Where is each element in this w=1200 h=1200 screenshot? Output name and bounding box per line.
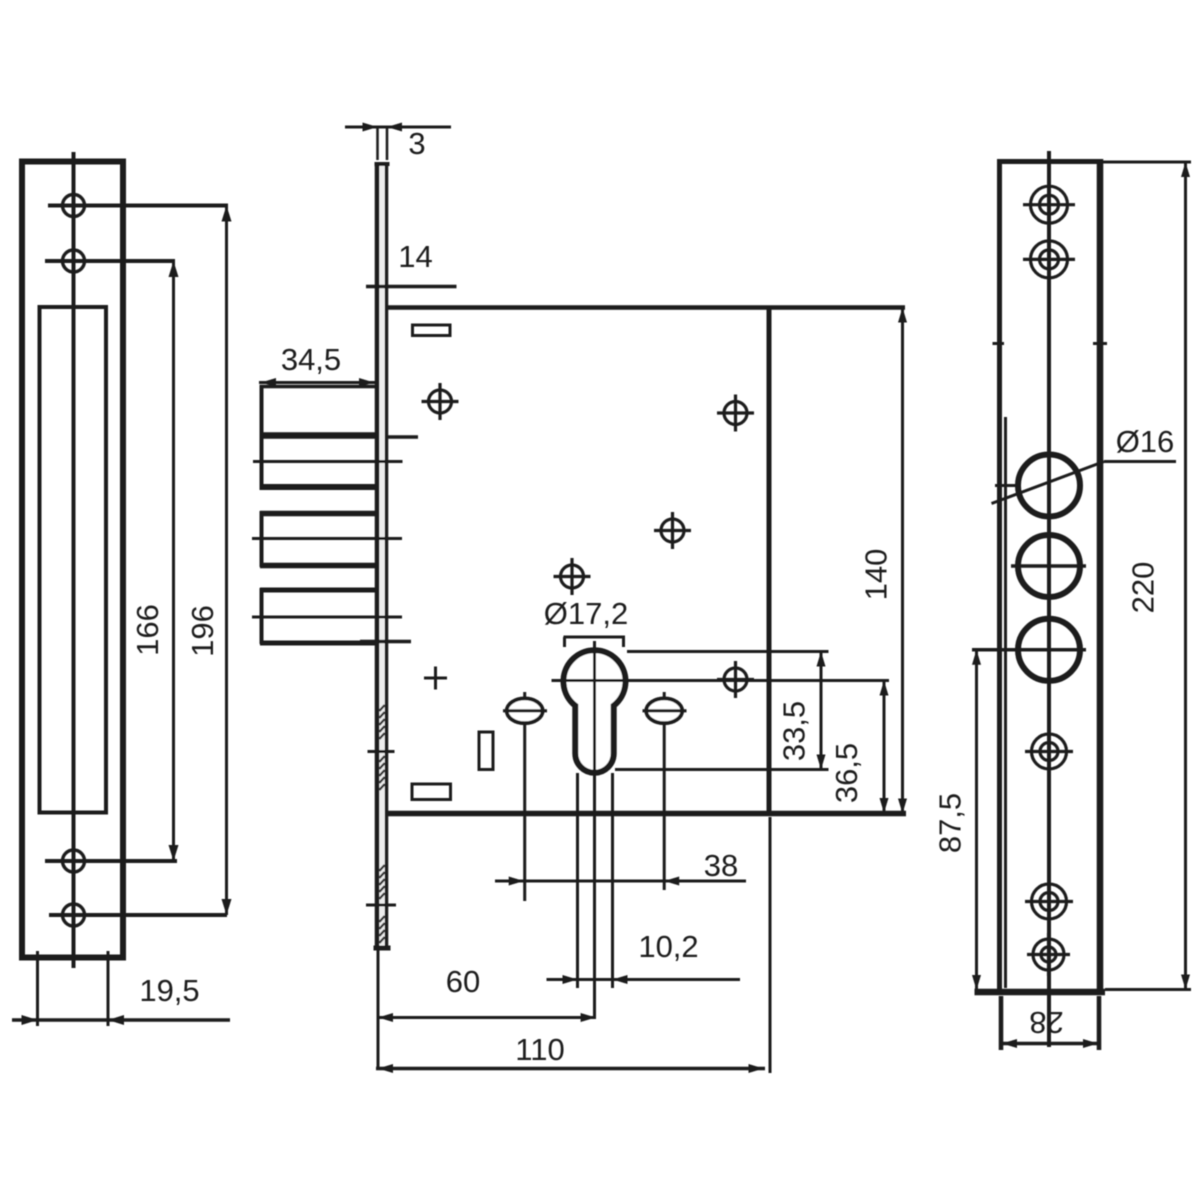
screw S1 head xyxy=(507,698,543,723)
svg-text:34,5: 34,5 xyxy=(281,342,341,377)
screw hole R1 xyxy=(1023,179,1075,231)
bolt stack 2 top xyxy=(260,511,375,517)
dimension 140 line xyxy=(901,308,904,814)
arrows 28 (inside) xyxy=(1002,1039,1017,1048)
svg-text:166: 166 xyxy=(130,604,165,656)
hole H2 xyxy=(63,250,85,272)
hole H3 xyxy=(63,850,85,872)
arrows 196 xyxy=(222,206,232,222)
33,5 top extension xyxy=(627,650,829,653)
case top edge + 140 extension xyxy=(387,305,906,310)
bolt stack 3 top xyxy=(260,588,375,593)
dimension 220 bottom extension xyxy=(1105,988,1191,991)
B1 leader horizontal xyxy=(1104,460,1176,463)
dimension 10,2 line xyxy=(547,978,741,981)
case right edge xyxy=(767,306,772,814)
top slot xyxy=(413,325,451,336)
dim 10,2 extensions xyxy=(576,773,579,988)
arrows 166 xyxy=(169,261,179,277)
bolt stack 3 left edge xyxy=(260,588,264,644)
svg-text:196: 196 xyxy=(185,605,220,657)
svg-text:60: 60 xyxy=(446,964,480,999)
plate right edge xyxy=(1097,159,1104,992)
bolt stack 1 left edge xyxy=(260,385,264,489)
arrows 87,5 xyxy=(972,650,981,665)
dimension 19,5 line xyxy=(12,1018,230,1022)
plate bottom edge xyxy=(975,989,1106,996)
arrows 220 xyxy=(1181,162,1190,177)
hole H4 xyxy=(63,904,85,926)
bolt stack 3 centerline xyxy=(252,616,402,619)
cylinder horizontal centerline visible in circle xyxy=(552,679,890,682)
cylinder centerline over keyhole xyxy=(593,644,596,772)
arrows 19,5 xyxy=(22,1015,38,1025)
plain cross xyxy=(424,677,447,680)
svg-text:19,5: 19,5 xyxy=(139,973,199,1008)
hole H2 extension line xyxy=(45,259,175,263)
strip bottom cap xyxy=(374,946,391,951)
plate top edge xyxy=(997,159,1100,164)
case bottom edge + extension xyxy=(387,811,907,817)
bolt stack 1 mid thick band xyxy=(260,432,376,439)
arrows 10,2 (outside) xyxy=(563,975,578,984)
dimension 33,5 line xyxy=(820,652,823,770)
bolt stack 2 left edge xyxy=(260,511,264,567)
arrows 140 xyxy=(898,308,907,323)
crosshair hole B xyxy=(724,402,747,425)
bolt stack 2 bottom xyxy=(260,563,375,569)
dimension 28 extensions xyxy=(999,996,1004,1050)
screw hole R3 xyxy=(1025,728,1073,776)
strip lower extension to 110 dim xyxy=(377,950,380,1070)
plate left edge xyxy=(997,159,1002,992)
edge tick left xyxy=(993,342,1005,345)
dia 17,2 bracket xyxy=(564,637,626,647)
dimension 60 line xyxy=(377,1016,596,1019)
faceplate inner cutout xyxy=(40,307,107,813)
crosshair hole E xyxy=(724,668,747,691)
svg-text:3: 3 xyxy=(408,126,425,161)
dimension 87,5 line xyxy=(975,650,978,990)
B1 leader diagonal xyxy=(992,462,1105,504)
euro profile cylinder hole xyxy=(563,650,625,772)
plate centerline xyxy=(1047,151,1051,1047)
big circle B1 xyxy=(1018,455,1080,517)
dimension 19,5 extension lines xyxy=(36,951,39,1026)
svg-text:28: 28 xyxy=(1029,1005,1063,1040)
arrows 33,5 xyxy=(817,652,826,667)
arrows 60 (inside) xyxy=(378,1013,393,1022)
svg-text:110: 110 xyxy=(515,1032,564,1067)
big circle B3 xyxy=(1018,619,1080,681)
dimension 220 line xyxy=(1184,162,1187,990)
33,5 bottom extension xyxy=(615,768,829,771)
bolt stack 2 centerline xyxy=(252,537,402,540)
110 right extension xyxy=(769,817,772,1073)
hole H3 extension line xyxy=(45,859,177,863)
screw hole R5 xyxy=(1027,933,1070,976)
hole H1 xyxy=(63,195,85,217)
bottom slot xyxy=(412,784,451,800)
crosshair hole A xyxy=(429,390,452,413)
svg-text:14: 14 xyxy=(398,239,432,274)
vertical slot xyxy=(479,732,493,770)
dimension 166 line xyxy=(172,261,175,861)
dimension 36,5 line xyxy=(883,681,886,814)
arrows 110 (inside) xyxy=(378,1064,393,1073)
strip hatching xyxy=(379,705,384,943)
arrows dim 3 (outside, pointing inward) xyxy=(363,123,378,132)
screw S2 head xyxy=(646,698,682,723)
hole H1 extension line xyxy=(48,204,228,208)
svg-text:87,5: 87,5 xyxy=(933,793,968,853)
dimension 196 line xyxy=(225,206,228,916)
dimension 220 top extension xyxy=(1103,161,1191,164)
strip top cap xyxy=(375,162,390,166)
plate inner left line xyxy=(1004,417,1007,988)
crosshair hole D xyxy=(561,565,584,588)
screw hole R4 xyxy=(1025,878,1073,926)
crosshair hole C xyxy=(661,519,684,542)
screw hole R2 xyxy=(1023,233,1075,285)
strip tick upper xyxy=(368,750,395,753)
screw S1 stem xyxy=(523,692,526,901)
dimension 34,5 line xyxy=(259,381,376,384)
dimension 3 line xyxy=(345,126,451,129)
arrows 38 (outside) xyxy=(509,877,524,886)
big circle B2 xyxy=(1018,535,1080,597)
bolt stack 1 centerline xyxy=(253,460,403,463)
bolt stack 3 bottom + crossing xyxy=(260,641,375,646)
bolt stack 1 bottom xyxy=(260,484,376,490)
svg-text:33,5: 33,5 xyxy=(777,701,812,761)
dim 3 extension lines xyxy=(376,127,379,160)
svg-text:38: 38 xyxy=(704,848,738,883)
dimension 14 line xyxy=(366,285,457,289)
dimension 110 line xyxy=(376,1067,765,1071)
svg-text:220: 220 xyxy=(1126,562,1161,614)
strip tick lower xyxy=(366,904,396,907)
screw S2 stem xyxy=(663,692,666,890)
faceplate strip right line xyxy=(385,163,389,950)
faceplate centerline xyxy=(72,152,76,968)
strip gap tone xyxy=(379,166,384,947)
cylinder vertical centerline xyxy=(593,641,596,1019)
arrows dim 34,5 (inside, pointing outward) xyxy=(261,378,276,387)
faceplate strip left line xyxy=(375,163,380,950)
svg-text:Ø17,2: Ø17,2 xyxy=(544,596,628,631)
hole H4 extension line xyxy=(49,913,227,917)
dimension 28 line xyxy=(1001,1042,1099,1046)
bolt stack 1 top xyxy=(260,385,376,389)
dimension 38 line xyxy=(495,880,746,883)
euro profile cylinder outline xyxy=(563,650,625,772)
svg-text:140: 140 xyxy=(859,549,894,601)
bolt stack 1 band crossing into case xyxy=(387,435,419,439)
svg-text:Ø16: Ø16 xyxy=(1116,424,1175,459)
cylinder horizontal centerline / 36,5 extension xyxy=(552,679,890,682)
svg-text:36,5: 36,5 xyxy=(829,743,864,803)
faceplate outer outline xyxy=(22,162,123,958)
svg-text:10,2: 10,2 xyxy=(638,929,698,964)
edge tick right xyxy=(1093,342,1107,345)
B1 side line xyxy=(995,484,1018,487)
arrows 36,5 xyxy=(880,681,889,696)
